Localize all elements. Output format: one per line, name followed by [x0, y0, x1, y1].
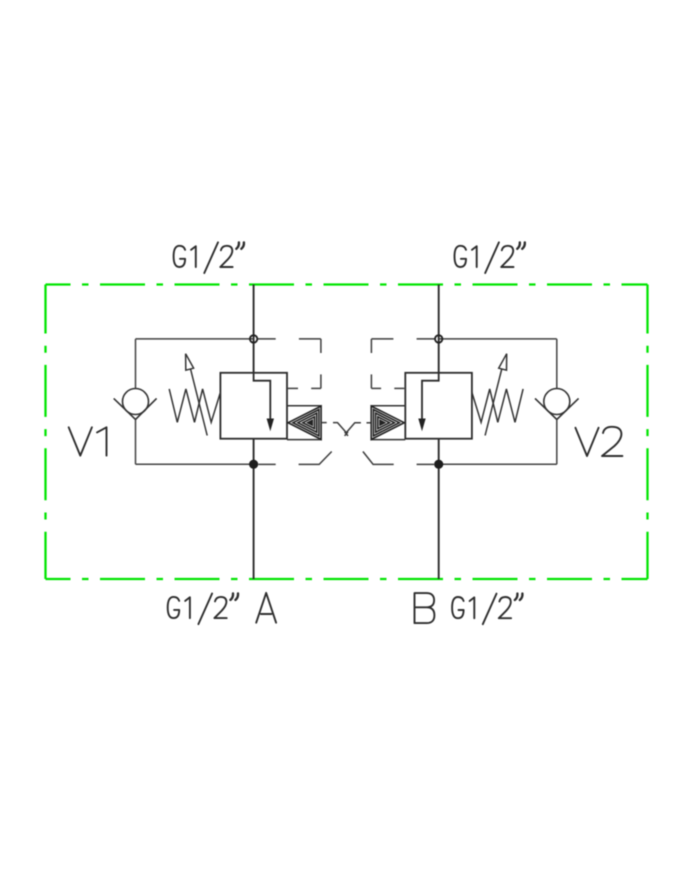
pilot line from node A to opposite valve (dashed diagonals): [258, 452, 434, 465]
node: bottom junction line A (filled): [249, 460, 258, 469]
valve V1 internal flow path: [254, 373, 271, 420]
wire: V1 check branch left lower: [135, 420, 137, 465]
node: top junction line 1 (open circle): [250, 335, 257, 342]
adjustment arrow of V1 shaft: [191, 369, 208, 435]
check valve CV1 ball: [123, 389, 149, 415]
wire: V2 check branch bottom: [439, 463, 557, 465]
pilot line crossing (center dashed V): [321, 423, 371, 436]
adjustment arrow of V2 head: [499, 354, 507, 371]
label G1/2" bottom left: [168, 594, 238, 625]
wire: V1 check branch left upper: [135, 339, 137, 389]
check valve CV2 seat: [535, 398, 579, 419]
node: bottom junction line B (filled): [434, 460, 443, 469]
adjustment arrow of V2 shaft: [485, 369, 502, 435]
wire: port line B (valve V2 to bottom): [438, 439, 440, 579]
valve V1 internal flow arrowhead: [267, 419, 274, 432]
pilot piston box of V2 top line: [371, 405, 405, 407]
envelope boundary (green dash-dot): [46, 285, 648, 580]
wire: port line A (valve V1 to bottom): [253, 439, 255, 579]
pilot line of V2 from top node (dashed bracket): [371, 339, 434, 389]
wire: port line 1 (top G1/2 to valve V1): [253, 285, 255, 373]
pilot piston box of V1 bottom line: [287, 439, 321, 441]
label V1: [69, 427, 107, 455]
pilot piston box of V1 top line: [287, 405, 321, 407]
pilot line of V1 from top node (dashed bracket): [258, 339, 321, 389]
label G1/2" bottom right: [452, 594, 522, 625]
label port A: [256, 593, 276, 623]
label G1/2" top right: [455, 242, 525, 273]
valve V2 internal flow path: [422, 373, 439, 420]
adjustment arrow of V1 head: [186, 354, 194, 371]
spring of V2: [472, 389, 523, 422]
check valve CV2 ball: [544, 389, 570, 415]
pilot triangle of V2 (concentric, pointing right): [371, 406, 404, 439]
check valve CV1 seat: [114, 398, 157, 419]
pilot triangle of V1 (concentric, pointing left): [288, 406, 321, 439]
pilot piston box of V2 bottom line: [371, 439, 405, 441]
wire: V2 check branch right lower: [556, 420, 558, 465]
valve V2 internal flow arrowhead: [418, 419, 425, 432]
spring of V1: [169, 389, 220, 422]
label V2: [575, 427, 622, 456]
valve V2 body square: [405, 373, 472, 439]
wire: V1 check branch bottom: [136, 463, 254, 465]
wire: V1 check branch top: [136, 338, 254, 340]
node: top junction line 2 (open circle): [435, 335, 442, 342]
valve V1 body square: [220, 373, 287, 439]
label port B: [415, 593, 435, 623]
wire: V2 check branch top: [439, 338, 557, 340]
wire: V2 check branch right upper: [556, 339, 558, 389]
wire: port line 2 (top G1/2 to valve V2): [438, 285, 440, 373]
label G1/2" top left: [174, 242, 244, 273]
